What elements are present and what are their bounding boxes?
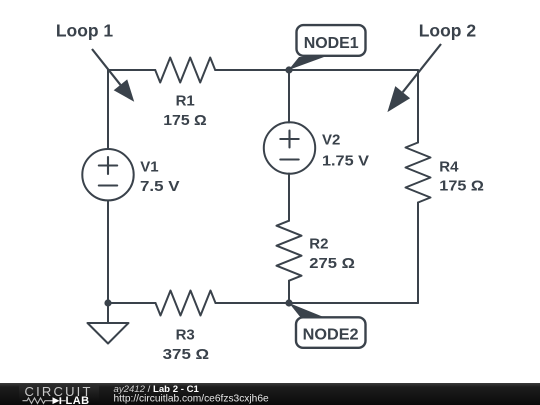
ground [88, 303, 129, 344]
svg-text:LAB: LAB [66, 395, 90, 405]
V2 plus sign [280, 131, 298, 148]
svg-text:R1: R1 [176, 93, 195, 110]
svg-text:1.75 V: 1.75 V [322, 152, 369, 169]
Loop 1 arrow [92, 49, 134, 102]
V1 minus sign [99, 184, 117, 186]
wire right vertical lower (R4 to bottom corner) [417, 203, 419, 304]
svg-text:175 Ω: 175 Ω [439, 178, 484, 195]
wire V2 to R2 [288, 174, 290, 221]
V1 plus sign [99, 157, 117, 174]
junction dot NODE1 [285, 66, 292, 73]
svg-text:V2: V2 [322, 131, 340, 148]
svg-text:NODE2: NODE2 [303, 326, 359, 343]
R3 value labels [163, 326, 210, 363]
wire right vertical upper (corner to R4) [417, 70, 419, 143]
V1 value labels [140, 158, 180, 195]
svg-text:http://circuitlab.com/ce6fzs3c: http://circuitlab.com/ce6fzs3cxjh6e [114, 394, 269, 405]
svg-text:375 Ω: 375 Ω [163, 346, 210, 363]
svg-text:R2: R2 [309, 235, 328, 252]
R4 value labels [439, 158, 484, 194]
V2 minus sign [280, 158, 298, 160]
svg-text:R4: R4 [439, 158, 459, 175]
CircuitLab logo resistor squiggle [23, 398, 50, 404]
wire NODE2 to bottom-right corner [289, 302, 418, 304]
voltage source V2 circle [264, 122, 315, 173]
resistor R4 [406, 143, 431, 203]
resistor R2 [277, 221, 302, 281]
resistor R3 [156, 291, 216, 316]
svg-text:275 Ω: 275 Ω [309, 255, 355, 272]
svg-text:7.5 V: 7.5 V [140, 178, 180, 195]
wire top-left horizontal (node at 108,70 to R1) [108, 69, 155, 71]
svg-text:Loop 2: Loop 2 [419, 21, 477, 41]
Loop 2 arrow [387, 44, 441, 112]
junction dot ground node [104, 299, 111, 306]
NODE2 callout pointer [289, 303, 326, 318]
svg-text:Loop 1: Loop 1 [56, 21, 114, 41]
NODE2 callout box [296, 317, 366, 348]
NODE1 callout pointer [289, 57, 325, 70]
resistor R1 [155, 58, 215, 83]
junction dot NODE2 [285, 299, 292, 306]
svg-text:R3: R3 [176, 326, 195, 343]
wire R2 to NODE2 [288, 281, 290, 303]
wire R3 to NODE2 junction [216, 302, 290, 304]
voltage source V1 circle [82, 149, 133, 200]
svg-text:NODE1: NODE1 [304, 35, 359, 52]
wire R1 to NODE1 junction [215, 69, 289, 71]
wire left vertical lower (V1 to bottom node) [107, 201, 109, 304]
wire left vertical upper (corner to V1) [107, 70, 109, 149]
wire NODE1 to top-right corner [289, 69, 418, 71]
CircuitLab logo diode [50, 397, 66, 404]
NODE1 callout box [297, 25, 366, 56]
svg-text:175 Ω: 175 Ω [163, 112, 207, 129]
V2 value labels [322, 131, 369, 169]
footer bar [0, 383, 540, 405]
svg-text:V1: V1 [140, 158, 158, 175]
R1 value labels [163, 93, 207, 130]
R2 value labels [309, 235, 355, 272]
wire bottom left (ground node to R3) [108, 302, 156, 304]
wire middle vertical upper (NODE1 to V2) [288, 70, 290, 123]
